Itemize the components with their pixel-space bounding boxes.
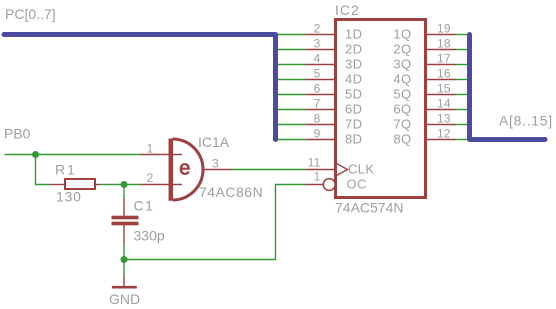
svg-text:5: 5 <box>314 67 321 81</box>
svg-text:2: 2 <box>147 171 154 185</box>
svg-text:7Q: 7Q <box>393 116 411 131</box>
svg-text:e: e <box>179 157 190 179</box>
svg-text:C1: C1 <box>134 198 155 214</box>
svg-text:74AC574N: 74AC574N <box>335 200 404 216</box>
svg-text:4D: 4D <box>345 71 362 86</box>
svg-text:3Q: 3Q <box>393 56 411 71</box>
svg-text:1D: 1D <box>345 26 362 41</box>
svg-text:2: 2 <box>314 22 321 36</box>
svg-text:5D: 5D <box>345 86 362 101</box>
svg-text:R1: R1 <box>55 162 77 178</box>
svg-text:5Q: 5Q <box>393 86 411 101</box>
svg-text:4: 4 <box>314 52 321 66</box>
svg-text:CLK: CLK <box>348 161 375 176</box>
svg-text:6Q: 6Q <box>393 101 411 116</box>
svg-text:3D: 3D <box>345 56 362 71</box>
svg-text:1: 1 <box>147 142 154 156</box>
svg-text:74AC86N: 74AC86N <box>199 184 263 200</box>
svg-text:GND: GND <box>109 291 140 307</box>
svg-text:1Q: 1Q <box>393 26 411 41</box>
svg-text:OC: OC <box>347 176 367 191</box>
svg-text:11: 11 <box>308 156 321 170</box>
svg-text:4Q: 4Q <box>393 71 411 86</box>
svg-text:8: 8 <box>314 112 321 126</box>
svg-text:13: 13 <box>437 112 451 126</box>
svg-text:15: 15 <box>437 82 451 96</box>
svg-text:PB0: PB0 <box>4 126 31 142</box>
svg-text:8D: 8D <box>345 131 362 146</box>
svg-text:16: 16 <box>437 67 451 81</box>
svg-text:3: 3 <box>314 37 321 51</box>
svg-text:2Q: 2Q <box>393 41 411 56</box>
svg-text:8Q: 8Q <box>393 131 411 146</box>
svg-text:14: 14 <box>437 97 451 111</box>
svg-text:9: 9 <box>314 127 321 141</box>
svg-text:2D: 2D <box>345 41 362 56</box>
svg-text:330p: 330p <box>134 228 165 244</box>
svg-text:7: 7 <box>314 97 321 111</box>
svg-text:19: 19 <box>437 22 451 36</box>
svg-text:18: 18 <box>437 37 451 51</box>
svg-text:3: 3 <box>212 157 219 171</box>
svg-text:12: 12 <box>437 127 451 141</box>
svg-text:6: 6 <box>314 82 321 96</box>
svg-text:IC1A: IC1A <box>198 134 230 150</box>
svg-text:6D: 6D <box>345 101 362 116</box>
svg-text:PC[0..7]: PC[0..7] <box>5 6 56 22</box>
svg-text:A[8..15]: A[8..15] <box>499 113 553 129</box>
svg-text:130: 130 <box>56 189 82 205</box>
svg-text:IC2: IC2 <box>335 2 360 18</box>
svg-text:1: 1 <box>314 170 321 184</box>
svg-text:17: 17 <box>437 52 451 66</box>
svg-text:7D: 7D <box>345 116 362 131</box>
